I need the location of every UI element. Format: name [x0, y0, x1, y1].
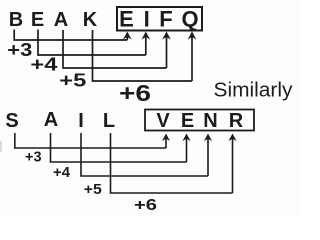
wire E to arrow2 [38, 30, 146, 56]
arrow3 into F2 [166, 34, 168, 69]
svg-text:A: A [54, 9, 68, 31]
svg-text:E: E [119, 7, 134, 32]
arrow8 into R2 [232, 136, 234, 194]
svg-text:A: A [44, 109, 58, 131]
box VENR [145, 110, 254, 131]
svg-text:+5: +5 [59, 71, 86, 91]
svg-text:E: E [181, 110, 194, 132]
arrow6 into E3 [186, 136, 188, 163]
wire I3 to arrow7 [81, 133, 208, 176]
wire B to arrow1 [14, 30, 127, 41]
wire S to arrow5 [15, 133, 166, 148]
wire A3 to arrow6 [51, 133, 187, 162]
svg-text:+3: +3 [7, 40, 32, 60]
svg-text:Q: Q [181, 7, 198, 32]
svg-text:+4: +4 [30, 55, 57, 75]
svg-text:I: I [144, 7, 150, 32]
svg-text:F: F [159, 7, 172, 32]
arrow2 into I2 [145, 34, 147, 56]
svg-text:B: B [9, 9, 23, 31]
arrow1 into E2 [126, 34, 128, 41]
svg-text:V: V [156, 110, 170, 132]
svg-text:L: L [103, 110, 115, 132]
svg-text:K: K [83, 9, 98, 31]
svg-text:+6: +6 [119, 80, 151, 106]
svg-text:N: N [203, 110, 217, 132]
wire K to arrow4 [93, 30, 193, 81]
svg-text:+4: +4 [53, 164, 71, 181]
svg-text:+3: +3 [25, 149, 42, 166]
arrow7 into N2 [207, 136, 209, 177]
box EIFQ [117, 7, 202, 31]
svg-text:E: E [31, 9, 44, 31]
svg-text:S: S [5, 110, 18, 132]
svg-text:I: I [78, 110, 84, 132]
scan artifact left edge [0, 141, 2, 152]
svg-text:Similarly: Similarly [214, 80, 293, 102]
svg-text:+6: +6 [134, 197, 157, 214]
arrow5 into V2 [165, 136, 167, 149]
arrow4 into Q2 [191, 34, 193, 82]
wire L3 to arrow8 [111, 133, 233, 193]
wire A to arrow3 [63, 30, 167, 68]
svg-text:R: R [229, 110, 244, 132]
svg-text:+5: +5 [84, 181, 102, 198]
